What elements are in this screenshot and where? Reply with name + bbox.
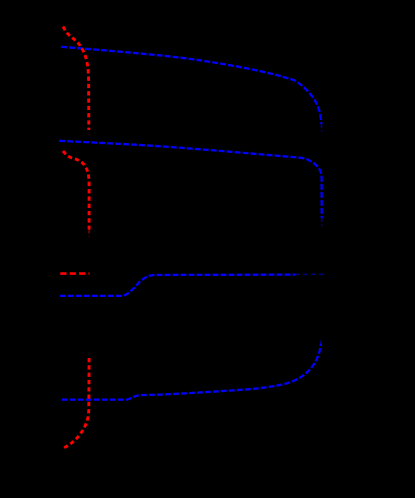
panel 2 red fading tail [88, 230, 90, 238]
panel 3 red segment [60, 272, 89, 275]
panel 4 blue curve [62, 344, 321, 400]
panel 4 red curve [64, 358, 89, 448]
panel 1 blue fading tail [320, 124, 322, 132]
panel 4 blue fading tail [320, 340, 322, 344]
panel 2 red curve [63, 151, 89, 230]
panel 3 blue fading tail [295, 273, 325, 275]
panel 2 blue fading tail [321, 218, 323, 226]
panel 1 blue curve [61, 47, 321, 124]
panel 1 red curve [63, 27, 89, 131]
panel 2 blue curve [59, 141, 322, 218]
panel 3 blue curve [60, 275, 295, 296]
